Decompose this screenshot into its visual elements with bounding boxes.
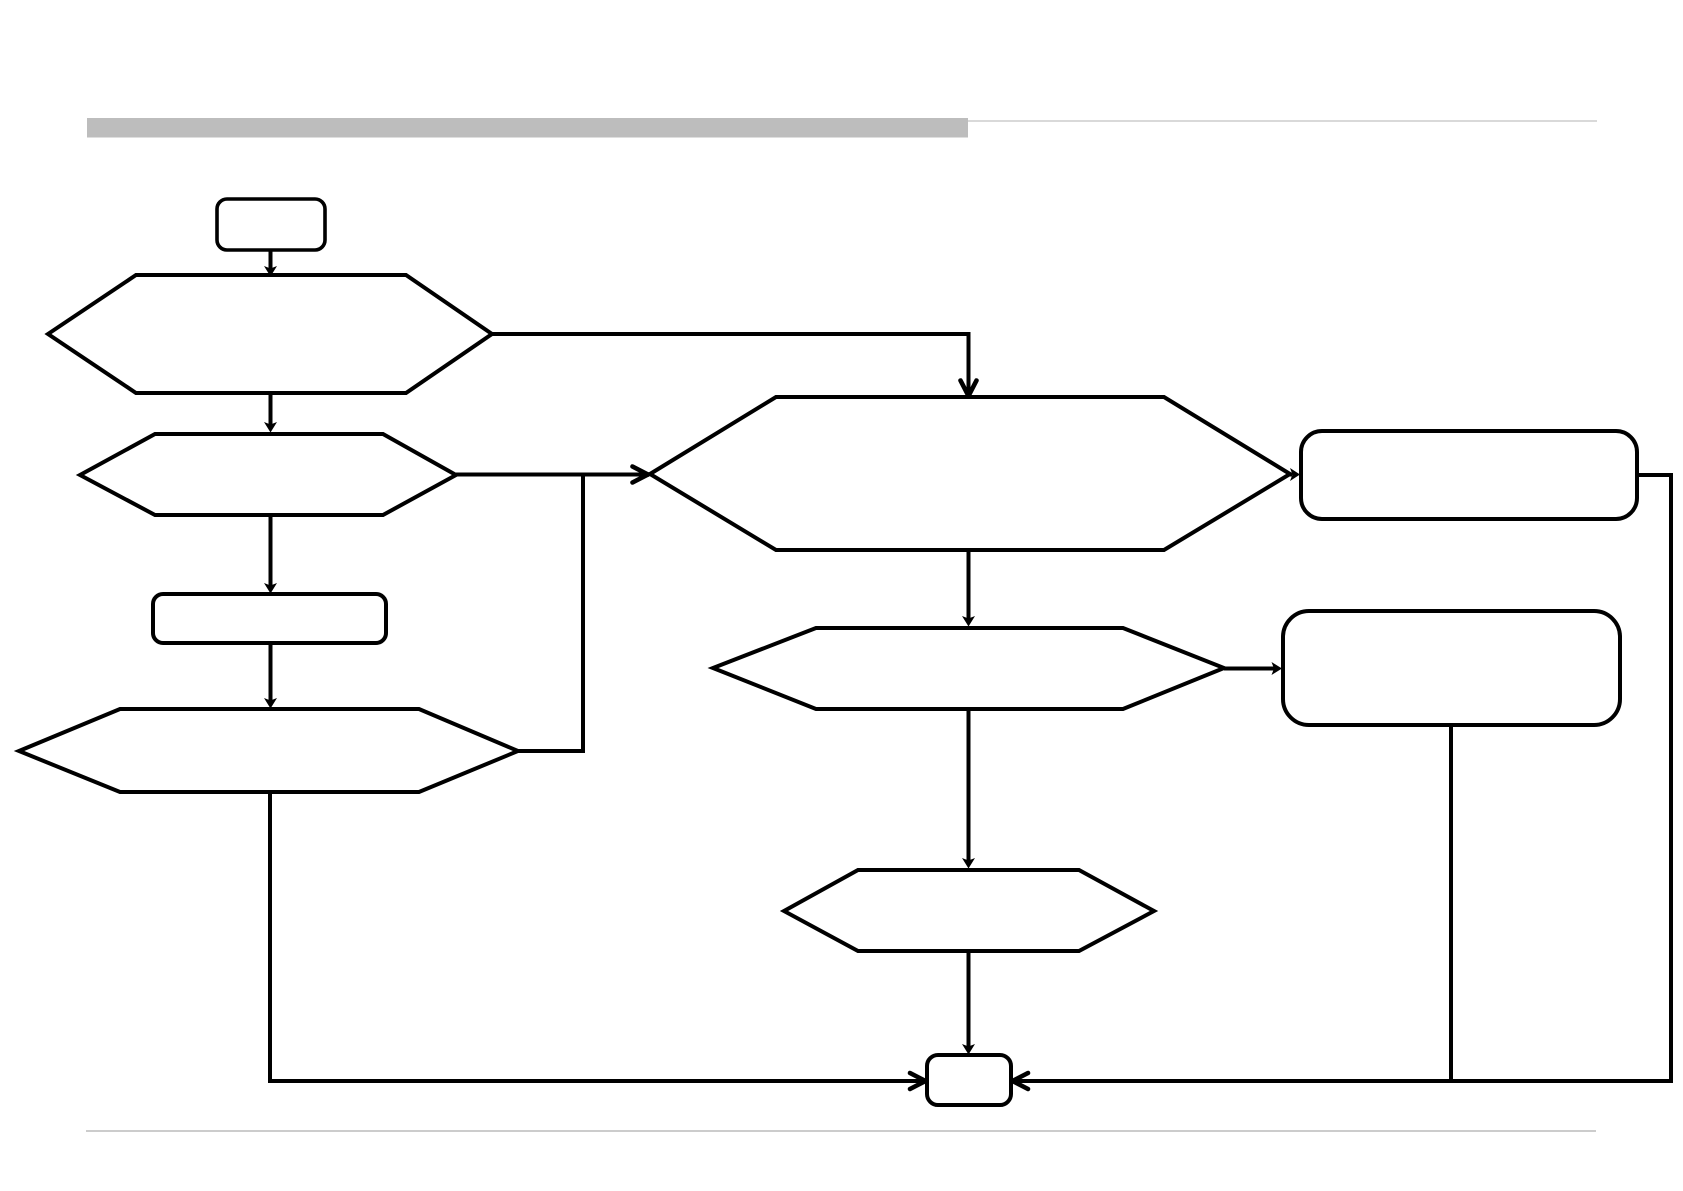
wire process1 bottom to decision3 top	[264, 643, 277, 709]
decision3 hexagon	[19, 709, 518, 792]
title placeholder bar	[87, 118, 968, 138]
wire decision1 right to decision4 top	[492, 334, 977, 396]
decision2 hexagon	[80, 434, 456, 515]
decision1 hexagon	[48, 275, 492, 393]
wire decision6 bottom to terminator-end top	[962, 951, 975, 1055]
process3 box	[1283, 611, 1620, 725]
wire decision3 right up-junction into decision2 wire	[518, 475, 583, 752]
wire decision5 bottom to decision6 top	[962, 709, 975, 869]
wire decision5 right to process3 left	[1224, 662, 1282, 675]
process2 box	[1301, 431, 1637, 519]
wire process2 right down to terminator-end right	[1013, 475, 1672, 1089]
process1 box	[153, 594, 386, 643]
wire decision4 right to process2 left	[1288, 468, 1300, 481]
bottom divider line	[86, 1130, 1596, 1132]
decision5 hexagon	[713, 628, 1224, 709]
wire decision3 bottom to terminator-end left	[270, 792, 926, 1089]
top divider line	[968, 120, 1597, 122]
terminator end	[927, 1055, 1011, 1105]
terminator start	[217, 199, 325, 250]
decision6 hexagon	[784, 870, 1154, 951]
wire decision2 bottom to process1 top	[264, 515, 277, 594]
wire decision4 bottom to decision5 top	[962, 550, 975, 627]
wire process3 bottom down to end-junction	[1449, 725, 1453, 1081]
wire decision1 bottom to decision2 top	[264, 393, 277, 433]
wire start to decision1	[264, 250, 277, 277]
decision4 hexagon	[650, 397, 1290, 550]
wire decision2 right to decision4 left	[456, 467, 648, 483]
